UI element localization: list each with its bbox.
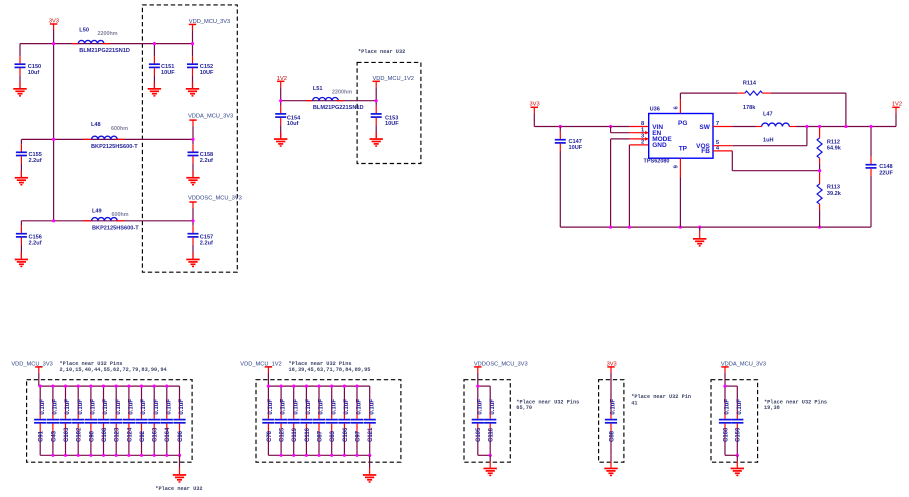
svg-text:C83: C83: [330, 430, 336, 442]
svg-text:PG: PG: [678, 120, 687, 127]
svg-text:C96: C96: [178, 430, 184, 442]
svg-text:VDD_MCU_1V2: VDD_MCU_1V2: [373, 76, 414, 82]
svg-text:0.1uF: 0.1uF: [344, 399, 350, 415]
svg-text:0.1uF: 0.1uF: [65, 399, 71, 415]
svg-text:BKP2125HS600-T: BKP2125HS600-T: [91, 144, 138, 150]
svg-text:C102: C102: [77, 427, 83, 442]
svg-text:C160: C160: [723, 427, 729, 442]
svg-text:L51: L51: [313, 86, 323, 92]
svg-text:C106: C106: [343, 427, 349, 442]
svg-text:0.1uF: 0.1uF: [154, 399, 160, 415]
svg-text:39.2k: 39.2k: [827, 191, 842, 197]
svg-text:10UF: 10UF: [385, 121, 399, 127]
svg-text:178k: 178k: [743, 105, 756, 111]
svg-text:0.1uF: 0.1uF: [331, 399, 337, 415]
svg-text:L49: L49: [92, 208, 102, 214]
svg-text:10UF: 10UF: [161, 70, 175, 76]
svg-text:2.2uf: 2.2uf: [29, 241, 42, 247]
svg-text:65,70: 65,70: [516, 405, 532, 411]
svg-text:VDD_MCU_3V3: VDD_MCU_3V3: [189, 19, 230, 25]
svg-text:SW: SW: [699, 124, 710, 131]
svg-text:10UF: 10UF: [569, 145, 583, 151]
svg-text:C92: C92: [140, 430, 146, 442]
svg-text:2,10,15,40,44,55,62,72,79,83,9: 2,10,15,40,44,55,62,72,79,83,90,94: [60, 367, 167, 373]
svg-text:C123: C123: [115, 427, 121, 442]
svg-text:C116: C116: [305, 427, 311, 442]
svg-text:*Place near U32 Pins: *Place near U32 Pins: [60, 361, 123, 367]
svg-text:C119: C119: [292, 427, 298, 442]
svg-text:2.2uf: 2.2uf: [200, 241, 213, 247]
svg-text:C147: C147: [569, 139, 582, 145]
svg-text:0.1uF: 0.1uF: [166, 399, 172, 415]
svg-text:3V3: 3V3: [49, 19, 59, 25]
svg-text:22UF: 22UF: [879, 170, 893, 176]
svg-text:C97: C97: [355, 430, 361, 442]
svg-text:0.1uF: 0.1uF: [53, 399, 59, 415]
svg-text:*Place near U32 Pins: *Place near U32 Pins: [289, 361, 352, 367]
svg-text:0.1uF: 0.1uF: [369, 399, 375, 415]
svg-text:0.1uF: 0.1uF: [611, 399, 617, 415]
svg-text:TPS62080: TPS62080: [644, 159, 670, 165]
svg-text:C87: C87: [317, 430, 323, 442]
svg-text:10uf: 10uf: [28, 70, 40, 76]
svg-text:C105: C105: [476, 427, 482, 442]
svg-text:0.1uF: 0.1uF: [725, 399, 731, 415]
svg-text:*Place near U32: *Place near U32: [358, 49, 405, 55]
svg-text:0.1uF: 0.1uF: [103, 399, 109, 415]
svg-text:L47: L47: [763, 112, 773, 118]
svg-text:0.1uF: 0.1uF: [40, 399, 46, 415]
svg-text:0.1uF: 0.1uF: [293, 399, 299, 415]
svg-text:VDDA_MCU_3V3: VDDA_MCU_3V3: [721, 362, 766, 368]
svg-text:0.1uF: 0.1uF: [319, 399, 325, 415]
svg-text:BLM21PG221SN1D: BLM21PG221SN1D: [313, 105, 364, 111]
svg-text:*Place near U32 Pin: *Place near U32 Pin: [631, 394, 691, 400]
svg-text:2.2uf: 2.2uf: [200, 158, 213, 164]
svg-text:C90: C90: [89, 430, 95, 442]
svg-text:C121: C121: [368, 427, 374, 442]
svg-text:0.1uF: 0.1uF: [141, 399, 147, 415]
svg-text:0.1uF: 0.1uF: [268, 399, 274, 415]
svg-text:3V3: 3V3: [530, 102, 540, 108]
svg-text:2.2uf: 2.2uf: [29, 158, 42, 164]
svg-text:GND: GND: [652, 142, 667, 149]
svg-text:10uf: 10uf: [287, 121, 299, 127]
svg-text:C103: C103: [64, 427, 70, 442]
svg-text:C78: C78: [267, 430, 273, 442]
svg-text:C124: C124: [127, 427, 133, 442]
svg-text:C163: C163: [153, 427, 159, 442]
svg-text:1V2: 1V2: [892, 102, 902, 108]
svg-text:VDDOSC_MCU_3V3: VDDOSC_MCU_3V3: [188, 196, 242, 202]
svg-text:0.1uF: 0.1uF: [78, 399, 84, 415]
svg-text:0.1uF: 0.1uF: [281, 399, 287, 415]
svg-text:600hm: 600hm: [111, 126, 128, 132]
svg-text:C108: C108: [102, 427, 108, 442]
svg-text:64.9k: 64.9k: [827, 145, 842, 151]
svg-text:0.1uF: 0.1uF: [179, 399, 185, 415]
svg-text:L50: L50: [79, 28, 89, 34]
svg-text:C148: C148: [879, 164, 892, 170]
svg-text:0.1uF: 0.1uF: [737, 399, 743, 415]
svg-text:VDDOSC_MCU_3V3: VDDOSC_MCU_3V3: [474, 362, 528, 368]
svg-text:0.1uF: 0.1uF: [490, 399, 496, 415]
svg-text:C125: C125: [280, 427, 286, 442]
svg-text:VDD_MCU_1V2: VDD_MCU_1V2: [240, 362, 281, 368]
svg-text:C88: C88: [609, 430, 615, 442]
svg-text:*Place near U32: *Place near U32: [155, 486, 202, 492]
svg-text:C164: C164: [165, 427, 171, 442]
svg-text:L48: L48: [91, 122, 101, 128]
svg-text:19,38: 19,38: [764, 405, 780, 411]
svg-text:10UF: 10UF: [200, 70, 214, 76]
svg-text:BLM21PG221SN1D: BLM21PG221SN1D: [79, 48, 130, 54]
svg-text:R114: R114: [743, 81, 757, 87]
svg-text:1uH: 1uH: [763, 138, 774, 144]
svg-text:2200hm: 2200hm: [332, 89, 352, 95]
svg-text:3V3: 3V3: [607, 362, 617, 368]
svg-text:C159: C159: [736, 427, 742, 442]
svg-text:VDD_MCU_3V3: VDD_MCU_3V3: [11, 362, 52, 368]
svg-text:0.1uF: 0.1uF: [91, 399, 97, 415]
svg-text:C91: C91: [39, 430, 45, 442]
svg-text:1V2: 1V2: [277, 76, 287, 82]
svg-text:U36: U36: [650, 107, 660, 113]
svg-text:BKP2125HS600-T: BKP2125HS600-T: [92, 226, 139, 232]
svg-text:FB: FB: [701, 148, 710, 155]
svg-text:0.1uF: 0.1uF: [306, 399, 312, 415]
svg-text:16,39,45,63,71,78,84,89,95: 16,39,45,63,71,78,84,89,95: [289, 367, 371, 373]
svg-text:600hm: 600hm: [112, 212, 129, 218]
svg-text:R113: R113: [827, 184, 840, 190]
svg-text:41: 41: [631, 401, 637, 407]
svg-text:0.1uF: 0.1uF: [477, 399, 483, 415]
svg-text:TP: TP: [679, 146, 688, 153]
svg-text:VDDA_MCU_3V3: VDDA_MCU_3V3: [188, 114, 233, 120]
svg-text:0.1uF: 0.1uF: [357, 399, 363, 415]
svg-text:C118: C118: [489, 427, 495, 442]
svg-text:2: 2: [641, 140, 644, 146]
svg-text:0.1uF: 0.1uF: [129, 399, 135, 415]
svg-text:0.1uF: 0.1uF: [116, 399, 122, 415]
svg-text:2200hm: 2200hm: [98, 31, 118, 37]
svg-text:C43: C43: [51, 430, 57, 442]
